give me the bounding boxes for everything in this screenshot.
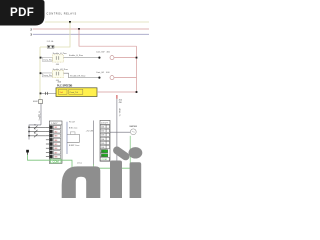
svg-text:4W: 4W [119,102,122,104]
terminal block X1 (left) [46,121,62,163]
wire yellow drop [40,22,70,47]
mid sub-circuit [67,122,79,154]
wire to motor [110,131,130,133]
contact S1 [52,55,63,62]
svg-text:O06: O06 [101,147,104,149]
ground node [26,150,29,153]
label box K2 [42,73,52,77]
switch SW3 [28,133,46,138]
capacitor C1 [70,132,75,135]
contact ticks [45,92,47,95]
yellow bus L1 [45,21,149,23]
watermark i stem [130,162,142,198]
WATER motor circuit [110,125,137,135]
switch SW1 [28,124,46,128]
PLC cell 2 [69,89,83,94]
svg-text:PDF: PDF [10,7,34,19]
wire branch loop [67,134,79,142]
svg-text:COM: COM [102,159,107,161]
svg-text:IN4: IN4 [54,140,57,142]
rung 1 [40,51,138,67]
svg-text:IN2: IN2 [54,131,57,133]
svg-text:O07: O07 [101,151,104,153]
green earth bus [28,155,132,169]
coil K2 [98,77,100,79]
node rail [136,57,138,59]
svg-text:PLC SPEEDB: PLC SPEEDB [57,84,73,87]
node rail plc [40,93,42,95]
svg-text:Enable_hR_Row: Enable_hR_Row [53,69,69,71]
left bracket rail [28,124,46,139]
svg-text:O08: O08 [101,155,104,157]
LS row labels [101,127,104,158]
watermark f stem [110,161,122,199]
PDF badge [0,0,45,26]
label box K1 [42,57,52,61]
node on yellow bus [69,21,71,23]
wire rung1 [41,57,99,59]
wire to trim [116,99,118,168]
svg-text:IN6: IN6 [54,148,57,150]
svg-text:Cont_hR 400: Cont_hR 400 [96,71,110,74]
svg-text:B NC Cxx: B NC Cxx [69,128,77,130]
svg-text:Enable_H_Pow: Enable_H_Pow [53,53,67,55]
node rail bottom [136,91,138,93]
X1 pin rows [50,126,61,159]
PLC U1 box [56,88,97,97]
svg-text:IN5: IN5 [54,144,57,146]
svg-text:O04: O04 [101,139,104,141]
blue bus L3 [33,33,149,35]
right block feed rail [86,121,94,165]
svg-text:IN8: IN8 [54,157,57,159]
motor M1 [130,129,136,135]
terminal block LS (right) [100,120,110,161]
svg-text:B NBT Cxxx: B NBT Cxxx [69,145,79,147]
red arrow tip [116,95,118,99]
svg-text:IN1: IN1 [54,127,57,129]
svg-text:IN7: IN7 [54,152,57,154]
svg-text:Cmpny_Rdy: Cmpny_Rdy [43,75,52,77]
wire green motor drop [129,136,131,168]
wire dark drop to bracket [40,104,42,125]
node on red bus [78,28,80,30]
svg-text:+Tx CW: +Tx CW [86,131,93,133]
svg-text:S3: S3 [34,133,36,135]
svg-text:O01: O01 [101,127,104,129]
svg-text:WATER: WATER [129,125,137,128]
wire mid rail [66,122,68,154]
wire ground stub [27,152,29,155]
watermark n [62,166,101,198]
svg-text:400V: 400V [33,101,38,103]
X1 left stubs [46,127,50,156]
watermark f hook [117,150,126,156]
PLC rung [40,82,138,97]
red rail [136,46,138,93]
node rail rung2 [40,72,42,74]
LS rows [100,125,109,157]
svg-text:Enable_hR_Row: Enable_hR_Row [70,76,86,78]
svg-text:Enable_H_Row: Enable_H_Row [69,55,83,57]
coil K1 [98,57,100,59]
wire rung2 [41,73,99,77]
svg-text:O02: O02 [101,131,104,133]
rung 2 [40,69,137,82]
wire bracket top [29,125,41,140]
fuse F2 [39,100,43,104]
svg-text:IN3: IN3 [54,136,57,138]
svg-text:S2: S2 [34,129,36,131]
wire plc to rail [97,91,137,93]
wire green block tail [93,164,95,168]
red bus L2 [33,28,149,30]
svg-text:[mv]: [mv] [78,162,82,164]
wire red feed [79,29,137,46]
svg-text:O05: O05 [101,143,104,145]
X1 pin labels [54,127,57,158]
LS COM cell [100,157,109,160]
svg-text:FU1 4A: FU1 4A [47,40,54,43]
switch SW2 [28,129,46,134]
svg-text:PL 027: PL 027 [69,122,75,124]
svg-text:Cont_Txl: Cont_Txl [70,91,79,94]
wire coil to rail red [114,57,136,59]
svg-text:Cmpny_Rdy: Cmpny_Rdy [43,59,52,61]
svg-text:O03: O03 [101,135,104,137]
svg-text:CONTROL RELAYS: CONTROL RELAYS [47,13,77,16]
wire block rail [93,121,95,165]
svg-text:Cont_hW 400: Cont_hW 400 [96,51,111,54]
wire yellow left rail [39,47,41,100]
fuse F1 [47,45,54,48]
svg-text:S1: S1 [34,124,36,126]
To TRIM continuation line [117,95,123,168]
contact S2 [52,70,63,77]
watermark i dot [129,147,143,158]
svg-text:To TRIM: To TRIM [119,108,121,116]
wire coil2 to rail red [114,77,136,79]
node rail rung1 [40,57,42,59]
X1 COM cell [50,159,61,163]
wire to plc [41,92,57,94]
PLC cell 1 [58,89,67,94]
